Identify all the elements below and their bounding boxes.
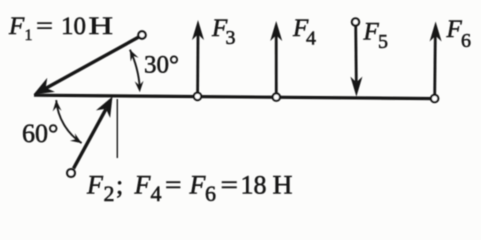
label "F2; F4 = F6 = 18 N" [86, 171, 293, 207]
svg-text:F: F [363, 19, 380, 46]
label "F3" [211, 15, 236, 49]
svg-text:5: 5 [378, 31, 388, 53]
30 degree angle arc between F1 and beam [130, 50, 144, 92]
svg-text:3: 3 [226, 27, 236, 49]
force F1 arrow (10 N at 30 deg to beam, pointing down-left) [34, 31, 146, 94]
label "F6" [446, 16, 472, 52]
label "F1 = 10 N" [8, 13, 113, 44]
label "60°" [22, 119, 58, 148]
svg-text:;: ; [116, 171, 123, 200]
beam (horizontal bar) [34, 95, 437, 98]
vertical reference line at F2 application point [116, 99, 118, 158]
svg-text:10: 10 [61, 13, 86, 40]
label "F5" [363, 19, 389, 54]
svg-text:F: F [86, 171, 104, 200]
label "F4" [292, 15, 316, 50]
svg-text:=: = [221, 171, 239, 200]
svg-text:6: 6 [461, 30, 471, 52]
svg-text:=: = [165, 171, 182, 200]
svg-text:H: H [273, 171, 293, 200]
svg-text:30°: 30° [144, 52, 179, 79]
node circle at F3 on beam [194, 93, 201, 100]
svg-text:1: 1 [25, 27, 33, 44]
svg-text:H: H [89, 13, 114, 40]
force F4 arrow (up) [270, 21, 282, 96]
force F6 arrow (up) at right end of beam [430, 22, 442, 97]
svg-text:F: F [189, 171, 207, 200]
svg-text:60°: 60° [22, 119, 58, 148]
node circle at right end of beam (F6) [431, 95, 438, 102]
svg-text:F: F [446, 16, 463, 43]
svg-text:18: 18 [241, 171, 267, 200]
force F2 arrow (up-right at 60 deg to beam) [67, 97, 112, 177]
svg-text:=: = [36, 13, 53, 40]
svg-text:F: F [134, 171, 152, 200]
60 degree angle arc between beam and F2 [53, 100, 82, 143]
svg-text:6: 6 [205, 181, 216, 206]
svg-text:2: 2 [104, 181, 115, 206]
label "30°" [144, 52, 179, 79]
svg-text:4: 4 [306, 28, 316, 50]
svg-text:F: F [8, 13, 25, 40]
force F3 arrow (up) [192, 20, 204, 95]
force F5 arrow (down) with circle at top [350, 18, 362, 96]
svg-text:4: 4 [151, 181, 162, 206]
node circle at F4 on beam [273, 93, 280, 100]
